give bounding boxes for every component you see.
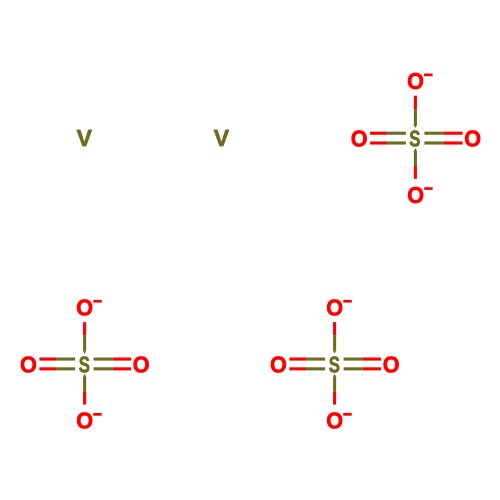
sulfate 1: minus charge on bottom O bbox=[424, 187, 433, 190]
sulfate 3: bond S-O bottom, olive half bbox=[333, 374, 336, 392]
sulfate 3: bond S-O top, olive half bbox=[333, 335, 336, 353]
sulfate 3: bond S-O bottom, red half bbox=[333, 392, 336, 405]
sulfate 1: atom O top (charged) bbox=[407, 68, 424, 94]
sulfate 1: bond S-O bottom, red half bbox=[414, 166, 417, 179]
sulfate 3: double bond S=O right, red half bbox=[363, 358, 381, 371]
svg-text:O: O bbox=[464, 126, 481, 152]
sulfate 2: atom S bbox=[79, 353, 90, 378]
svg-text:O: O bbox=[407, 68, 424, 94]
sulfate 2: atom O bottom (charged) bbox=[76, 408, 93, 434]
sulfate 3: double bond S=O left, olive half bbox=[306, 358, 325, 371]
sulfate 2: bond S-O top, olive half bbox=[83, 335, 86, 353]
svg-text:O: O bbox=[383, 352, 400, 378]
sulfate 2: atom O right (double-bonded) bbox=[133, 352, 150, 378]
sulfate 1: atom S bbox=[409, 127, 420, 152]
sulfate 2: minus charge on top O bbox=[93, 300, 102, 303]
sulfate 2: bond S-O top, red half bbox=[83, 322, 86, 335]
vanadium atom V1 bbox=[77, 125, 93, 151]
sulfate 2: double bond S=O right, red half bbox=[113, 358, 131, 371]
svg-text:O: O bbox=[133, 352, 150, 378]
sulfate 3: atom O left (double-bonded) bbox=[270, 352, 287, 378]
sulfate 2: atom O left (double-bonded) bbox=[20, 352, 37, 378]
sulfate 1: atom O bottom (charged) bbox=[407, 182, 424, 208]
sulfate 2: double bond S=O left, olive half bbox=[56, 358, 75, 371]
svg-text:O: O bbox=[326, 408, 343, 434]
svg-text:O: O bbox=[407, 182, 424, 208]
sulfate 3: atom O right (double-bonded) bbox=[383, 352, 400, 378]
svg-text:V: V bbox=[214, 125, 230, 151]
svg-text:O: O bbox=[326, 295, 343, 321]
sulfate 1: double bond S=O left, olive half bbox=[387, 132, 406, 145]
sulfate 1: bond S-O top, olive half bbox=[414, 109, 417, 128]
svg-text:S: S bbox=[409, 127, 420, 152]
sulfate 2: bond S-O bottom, red half bbox=[83, 392, 86, 405]
sulfate 1: double bond S=O left, red half bbox=[370, 132, 387, 145]
sulfate 3: double bond S=O right, olive half bbox=[344, 358, 363, 371]
svg-text:V: V bbox=[77, 125, 93, 151]
svg-text:O: O bbox=[270, 352, 287, 378]
sulfate 3: double bond S=O left, red half bbox=[289, 358, 306, 371]
sulfate 3: minus charge on bottom O bbox=[343, 413, 352, 416]
sulfate 1: bond S-O bottom, olive half bbox=[414, 148, 417, 166]
sulfate 3: atom S bbox=[329, 353, 340, 378]
sulfate 1: atom O right (double-bonded) bbox=[464, 126, 481, 152]
sulfate 2: atom O top (charged) bbox=[76, 295, 93, 321]
sulfate 1: atom O left (double-bonded) bbox=[351, 126, 368, 152]
sulfate 3: atom O bottom (charged) bbox=[326, 408, 343, 434]
sulfate 3: minus charge on top O bbox=[343, 300, 352, 303]
sulfate 1: double bond S=O right, red half bbox=[444, 132, 463, 145]
sulfate 3: atom O top (charged) bbox=[326, 295, 343, 321]
sulfate 1: minus charge on top O bbox=[424, 74, 433, 77]
sulfate 2: bond S-O bottom, olive half bbox=[83, 374, 86, 392]
svg-text:O: O bbox=[351, 126, 368, 152]
sulfate 3: bond S-O top, red half bbox=[333, 322, 336, 335]
svg-text:O: O bbox=[76, 408, 93, 434]
sulfate 2: double bond S=O left, red half bbox=[39, 358, 56, 371]
sulfate 1: bond S-O top, red half bbox=[414, 96, 417, 110]
sulfate 1: double bond S=O right, olive half bbox=[424, 132, 443, 145]
sulfate 2: double bond S=O right, olive half bbox=[94, 358, 113, 371]
svg-text:O: O bbox=[76, 295, 93, 321]
vanadium atom V2 bbox=[214, 125, 230, 151]
sulfate 2: minus charge on bottom O bbox=[93, 413, 102, 416]
svg-text:O: O bbox=[20, 352, 37, 378]
